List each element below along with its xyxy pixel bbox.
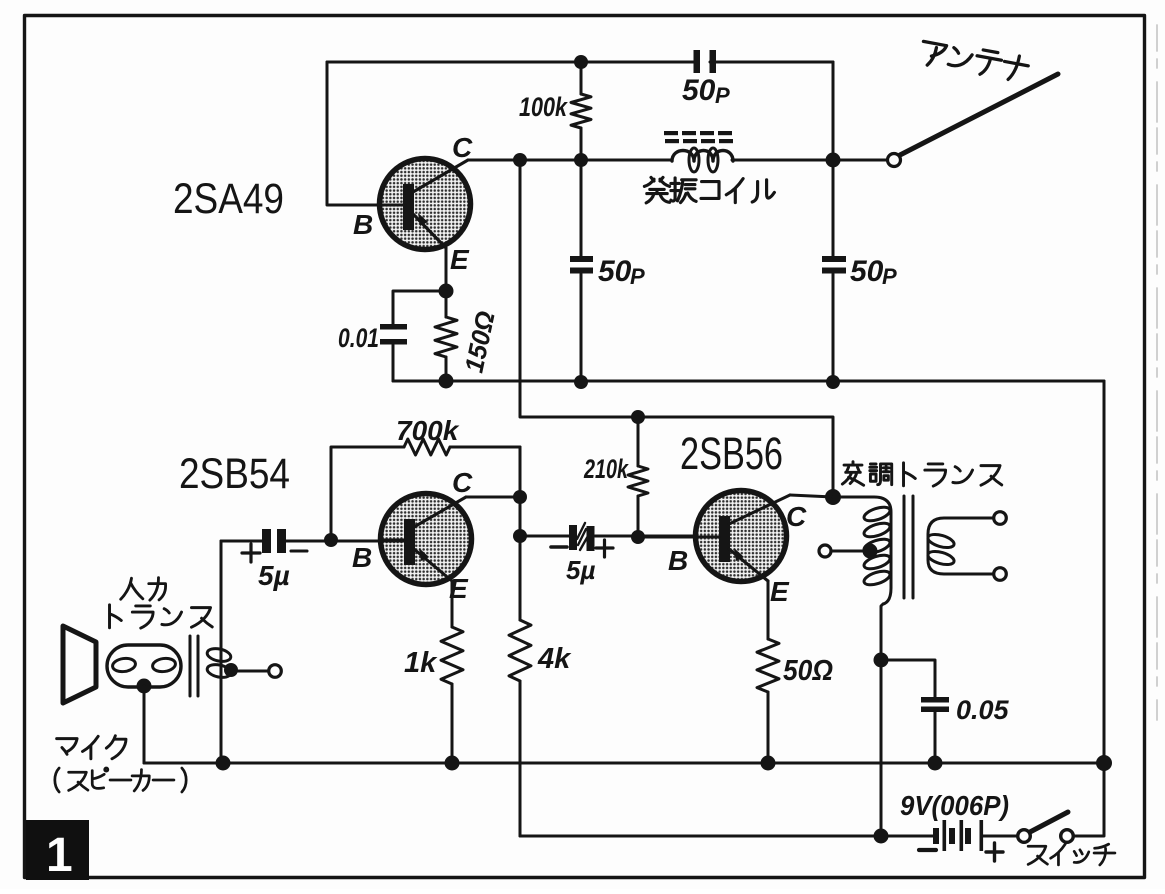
capacitor C 5u coupling (hatched electrolytic) [520,535,719,538]
node: rail/50P right [826,375,840,389]
wire: 700k right vertical / collector node [519,447,522,620]
svg-text:1: 1 [46,829,73,882]
transformer T2 primary tap [819,545,831,557]
svg-text:B: B [353,209,373,240]
node: rail/right vertical [1096,755,1112,771]
node: rail/50P left [574,375,588,389]
label （スピーカー） [55,768,186,792]
node: emitter junction [439,284,454,299]
svg-text:4k: 4k [537,643,572,675]
svg-text:700k: 700k [396,415,460,446]
svg-text:5µ: 5µ [566,555,595,585]
svg-text:0.01: 0.01 [338,323,379,353]
polarity - [291,549,307,552]
capacitor C 50P (right shunt) [822,256,846,262]
battery - sign [919,848,936,852]
node: rail/50ohm [761,756,776,771]
svg-text:E: E [770,576,790,607]
wire: Q1 emitter down [445,248,448,291]
node: rail/1k [445,756,460,771]
svg-text:50: 50 [682,74,716,107]
node: secondary tap [224,663,238,677]
polarity + [596,540,613,557]
antenna lead line [900,74,1058,155]
transistor Q1 2SA49 [380,159,471,250]
svg-text:50: 50 [850,255,884,288]
figure number tab [26,820,89,880]
transistor Q2 2SB54 [381,494,472,585]
svg-text:C: C [786,501,807,532]
coil core dashes [664,131,678,135]
resistor R 4k [509,620,531,681]
transformer T2 secondary [928,518,995,574]
node: primary bottom / 0.05 branch [874,653,889,668]
node: rail/150ohm [439,374,454,389]
svg-text:P: P [715,83,730,108]
wire: right vertical x=833 top [832,62,835,381]
label スイッチ [1028,844,1115,865]
resistor R 50ohm [767,581,770,763]
node: rail/T1 secondary [216,756,231,771]
svg-text:210k: 210k [583,454,629,484]
svg-text:P: P [882,264,897,289]
switch lever [1030,812,1068,832]
svg-text:C: C [452,467,473,498]
capacitor C 5u input (electrolytic) [221,540,404,543]
polarity + [242,544,260,562]
node: coil line / 100k junction [574,153,588,167]
node: primary bottom [137,679,152,694]
node: rail/0.05 [928,756,943,771]
inductor: oscillator coil (hatsushin coil) [672,151,733,162]
transformer T1 core [190,636,198,696]
wire: right-side vertical to battery [1074,381,1104,836]
polarity - [551,545,567,549]
node: Q2 collector junction [513,490,527,504]
node: base/700k junction [324,533,338,547]
node: coil line / antenna junction [826,153,841,168]
label 発振コイル [644,177,774,203]
wire: upper supply rail y=381 [393,380,1104,383]
svg-text:2SB56: 2SB56 [680,428,783,479]
svg-text:2SB54: 2SB54 [179,450,290,498]
svg-text:9V(006P): 9V(006P) [900,790,1009,821]
svg-text:2SA49: 2SA49 [173,175,284,223]
label アンテナ [919,38,1029,83]
battery + sign [986,843,1003,861]
transformer T1 primary loop [107,645,181,687]
svg-text:P: P [630,264,645,289]
wire: Q3 collector to transformer node [790,495,833,497]
resistor R 210k [637,417,640,536]
battery B1 9V(006P) [933,828,939,844]
svg-text:1k: 1k [404,647,438,679]
capacitor C 0.01 [380,324,407,330]
node: top rail / 100k junction [574,55,588,69]
wire: lower rail y=763 [144,762,1104,765]
wire: top rail y=62 [327,61,833,64]
wire: emitter to 0.01 branch [393,291,446,324]
svg-text:E: E [450,244,470,275]
capacitor C 0.05 [881,660,935,763]
label 入力トランス [121,578,166,600]
resistor R 150ohm [445,291,448,381]
svg-text:B: B [352,542,372,573]
transformer T1 secondary [220,541,223,763]
svg-text:50Ω: 50Ω [783,655,833,687]
svg-text:5µ: 5µ [258,560,290,591]
svg-text:C: C [452,132,473,163]
wire: battery negative lead [520,835,933,838]
secondary terminal bottom [994,568,1007,581]
wire: oscillator collector line y=160 [468,159,887,162]
Q1 emitter stroke [413,214,446,248]
node: collector / transformer junction [825,489,841,505]
capacitor C 50P (left shunt) [580,160,583,381]
label マイク [57,736,126,759]
node: collector / 5u coupling junction [513,529,527,543]
switch S1 [1018,830,1031,843]
Q1 collector stroke [413,160,468,192]
antenna terminal circle [888,154,901,167]
node: 210k / base junction [631,530,645,544]
page edge scan line [1156,25,1158,720]
resistor R 700k feedback [331,447,520,540]
node: collector junction 2SA49 [513,153,527,167]
svg-text:0.05: 0.05 [956,695,1010,725]
wire: collector feed to modulation transformer [520,160,833,497]
node: battery lead / transformer bottom [874,829,889,844]
microphone speaker cone [63,626,96,703]
label 変調トランス [842,462,1001,486]
wire: Q2 collector to node [466,496,520,499]
svg-text:B: B [668,545,688,576]
resistor R 1k [451,581,454,763]
resistor R 100k [580,62,583,160]
wire: Q3 base [638,536,719,539]
Q1 base lead overlay [381,204,405,207]
tap terminal circle [269,665,282,678]
transformer T2 core [904,496,913,598]
wire: 2SA49 base feedback (left vertical) [327,62,403,205]
svg-text:100k: 100k [519,92,569,122]
transistor Q3 2SB56 [696,491,787,582]
capacitor C 50P (top, series) [694,50,701,73]
transformer T2 primary [833,497,891,660]
node: 210k top junction [631,410,645,424]
secondary terminal top [994,512,1007,525]
svg-text:50: 50 [598,255,632,288]
